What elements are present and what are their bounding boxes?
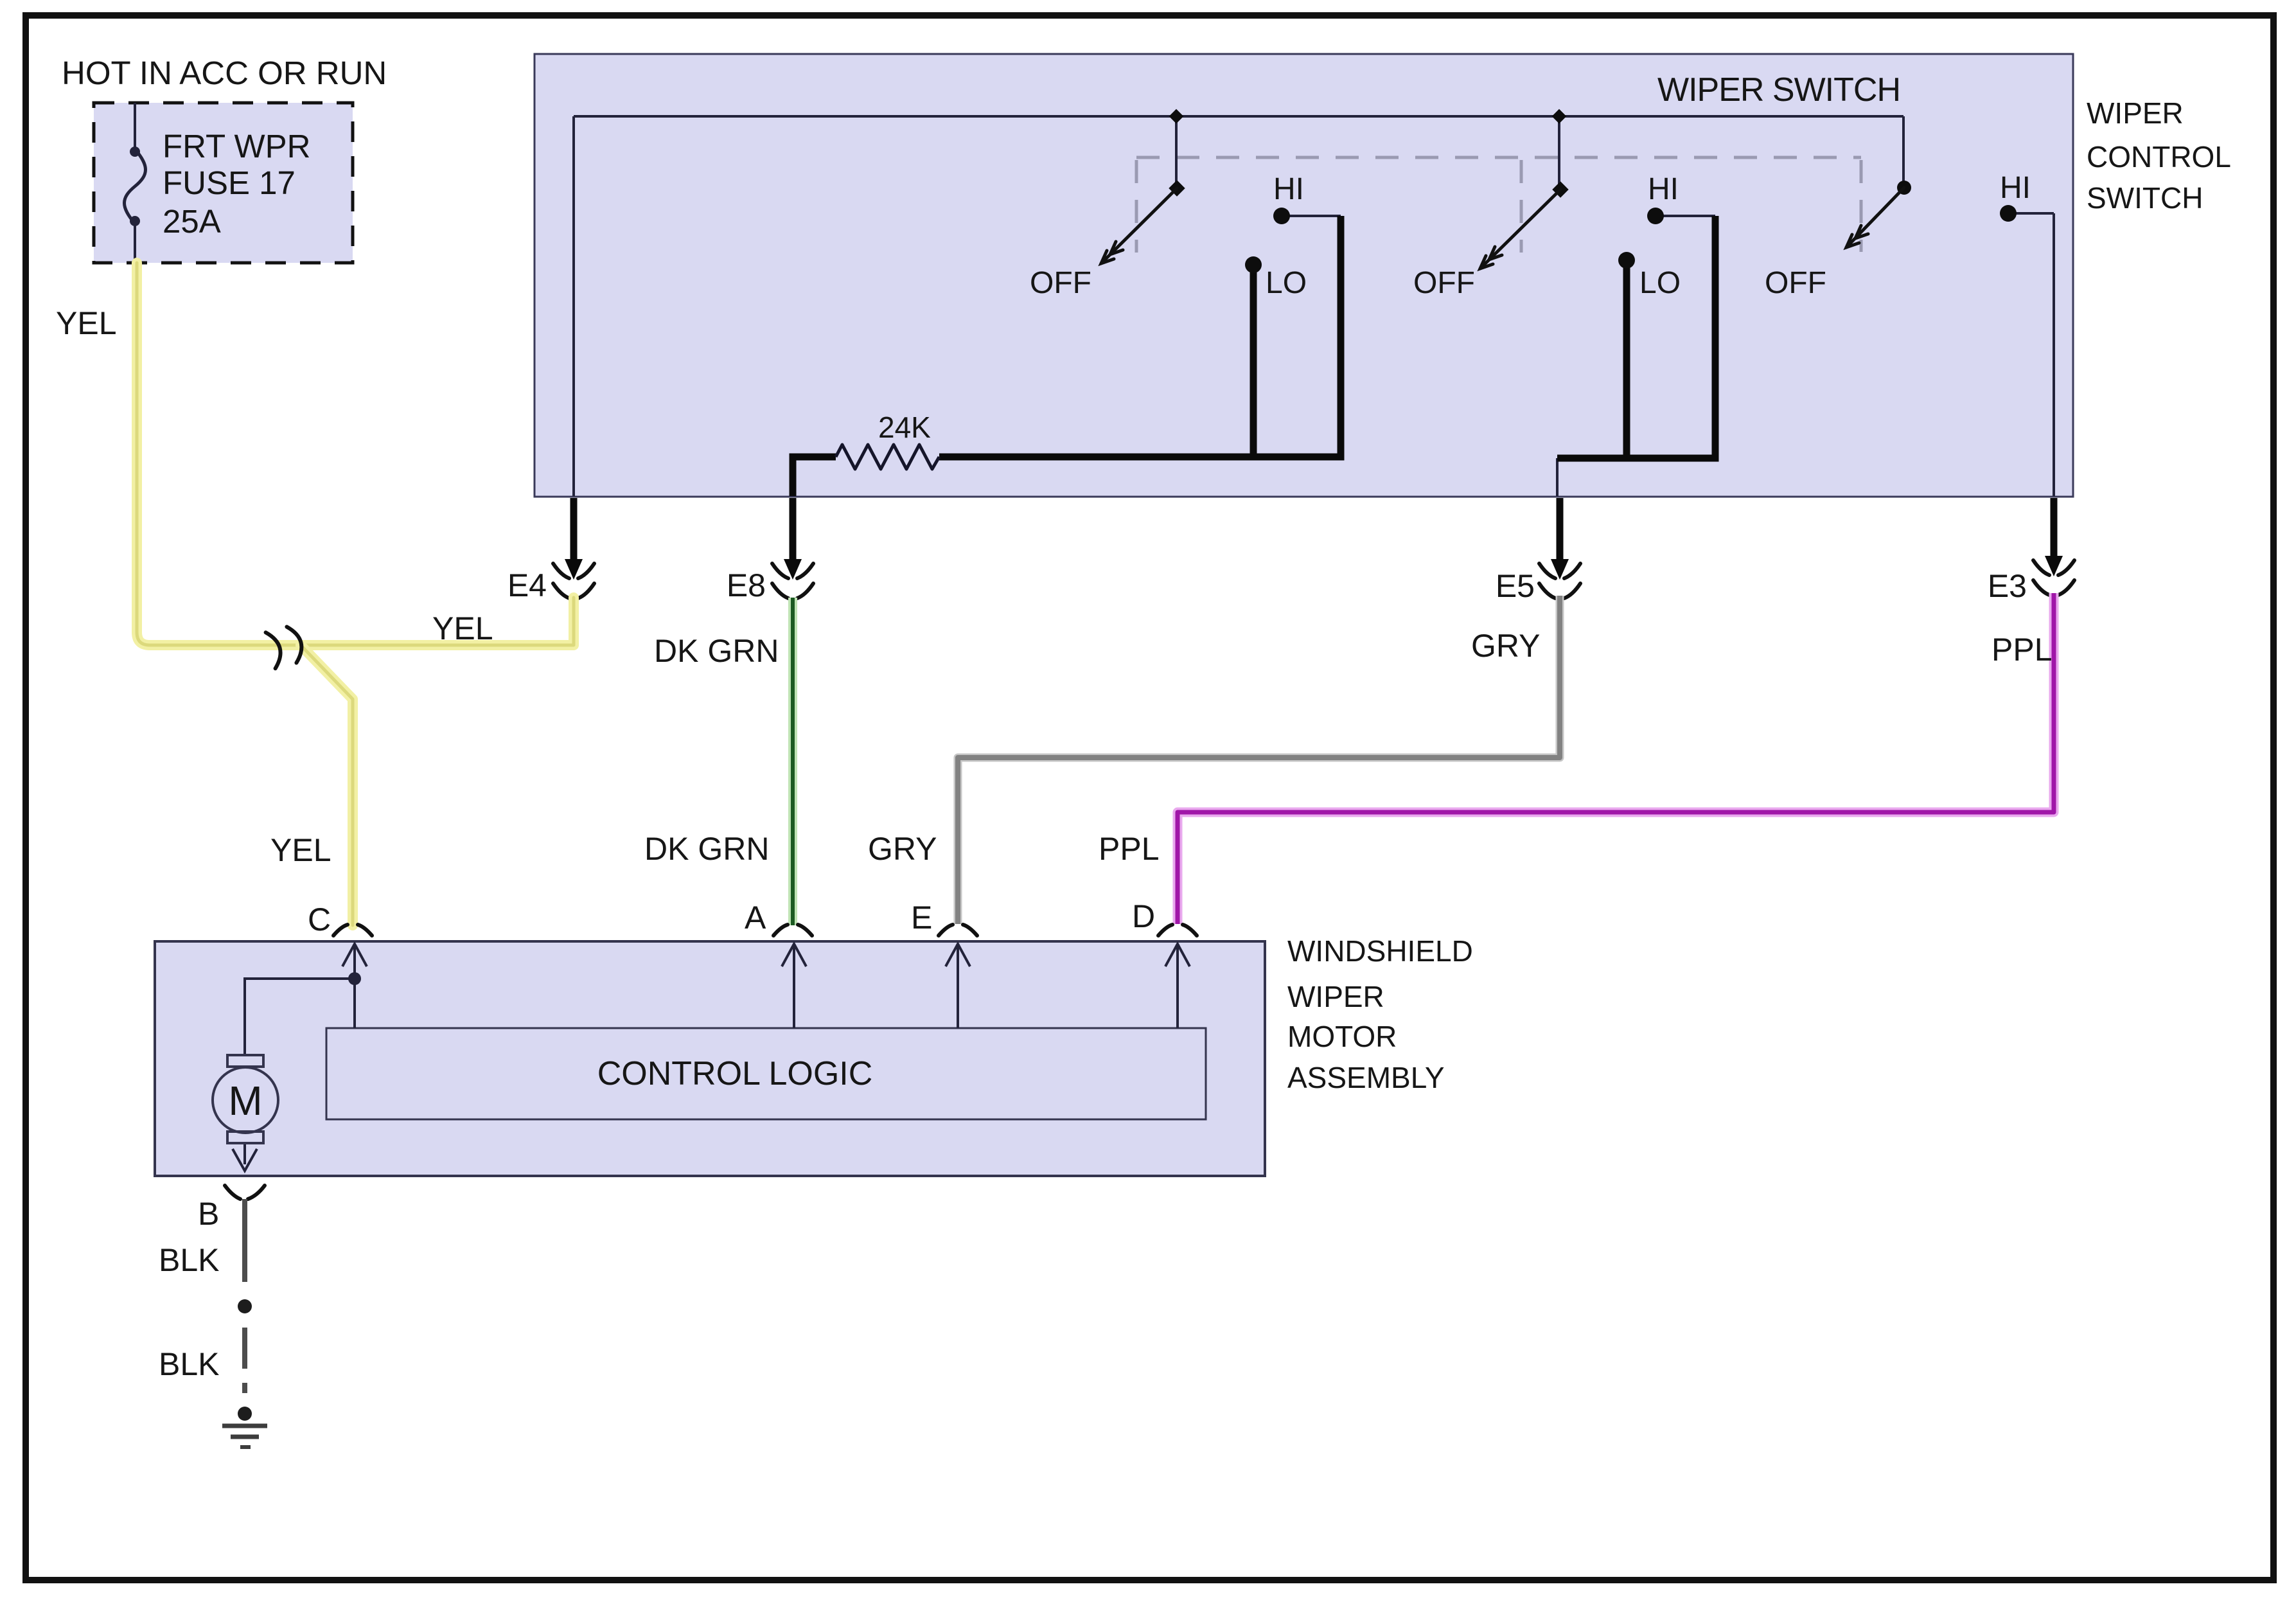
svg-text:E5: E5 [1496, 568, 1535, 604]
svg-text:OFF: OFF [1413, 266, 1475, 300]
svg-text:DK GRN: DK GRN [644, 831, 769, 867]
svg-text:B: B [198, 1196, 219, 1232]
svg-text:YEL: YEL [56, 305, 117, 341]
svg-text:OFF: OFF [1030, 266, 1091, 300]
svg-text:HOT IN ACC OR RUN: HOT IN ACC OR RUN [62, 55, 387, 91]
svg-text:C: C [308, 902, 331, 938]
svg-text:FUSE 17: FUSE 17 [163, 164, 296, 201]
svg-text:YEL: YEL [432, 610, 493, 646]
svg-text:BLK: BLK [159, 1242, 220, 1278]
svg-text:YEL: YEL [270, 832, 331, 868]
svg-text:CONTROL: CONTROL [2087, 140, 2231, 173]
svg-text:LO: LO [1639, 266, 1681, 300]
svg-text:DK GRN: DK GRN [654, 633, 779, 669]
svg-text:HI: HI [2000, 171, 2031, 205]
svg-text:HI: HI [1273, 172, 1304, 206]
svg-text:E8: E8 [727, 567, 766, 603]
svg-text:WIPER SWITCH: WIPER SWITCH [1657, 71, 1900, 109]
svg-text:GRY: GRY [868, 831, 937, 867]
svg-text:24K: 24K [878, 411, 931, 444]
svg-text:GRY: GRY [1471, 628, 1540, 664]
svg-text:PPL: PPL [1991, 632, 2053, 668]
svg-text:BLK: BLK [159, 1346, 220, 1382]
svg-text:WIPER: WIPER [2087, 96, 2184, 130]
svg-text:MOTOR: MOTOR [1287, 1020, 1397, 1053]
svg-text:25A: 25A [163, 203, 221, 240]
svg-text:E: E [911, 900, 932, 936]
svg-text:M: M [228, 1078, 262, 1124]
svg-text:PPL: PPL [1099, 831, 1160, 867]
svg-text:E3: E3 [1988, 568, 2027, 604]
svg-text:ASSEMBLY: ASSEMBLY [1287, 1061, 1445, 1094]
svg-text:CONTROL LOGIC: CONTROL LOGIC [597, 1055, 873, 1092]
svg-text:OFF: OFF [1765, 266, 1826, 300]
svg-text:SWITCH: SWITCH [2087, 181, 2203, 215]
svg-text:WINDSHIELD: WINDSHIELD [1287, 934, 1473, 968]
svg-text:A: A [745, 900, 766, 936]
svg-text:LO: LO [1266, 266, 1307, 300]
svg-text:HI: HI [1648, 172, 1679, 206]
svg-text:FRT WPR: FRT WPR [163, 128, 310, 164]
svg-text:D: D [1132, 898, 1155, 934]
svg-text:E4: E4 [508, 567, 547, 603]
svg-text:WIPER: WIPER [1287, 980, 1384, 1013]
